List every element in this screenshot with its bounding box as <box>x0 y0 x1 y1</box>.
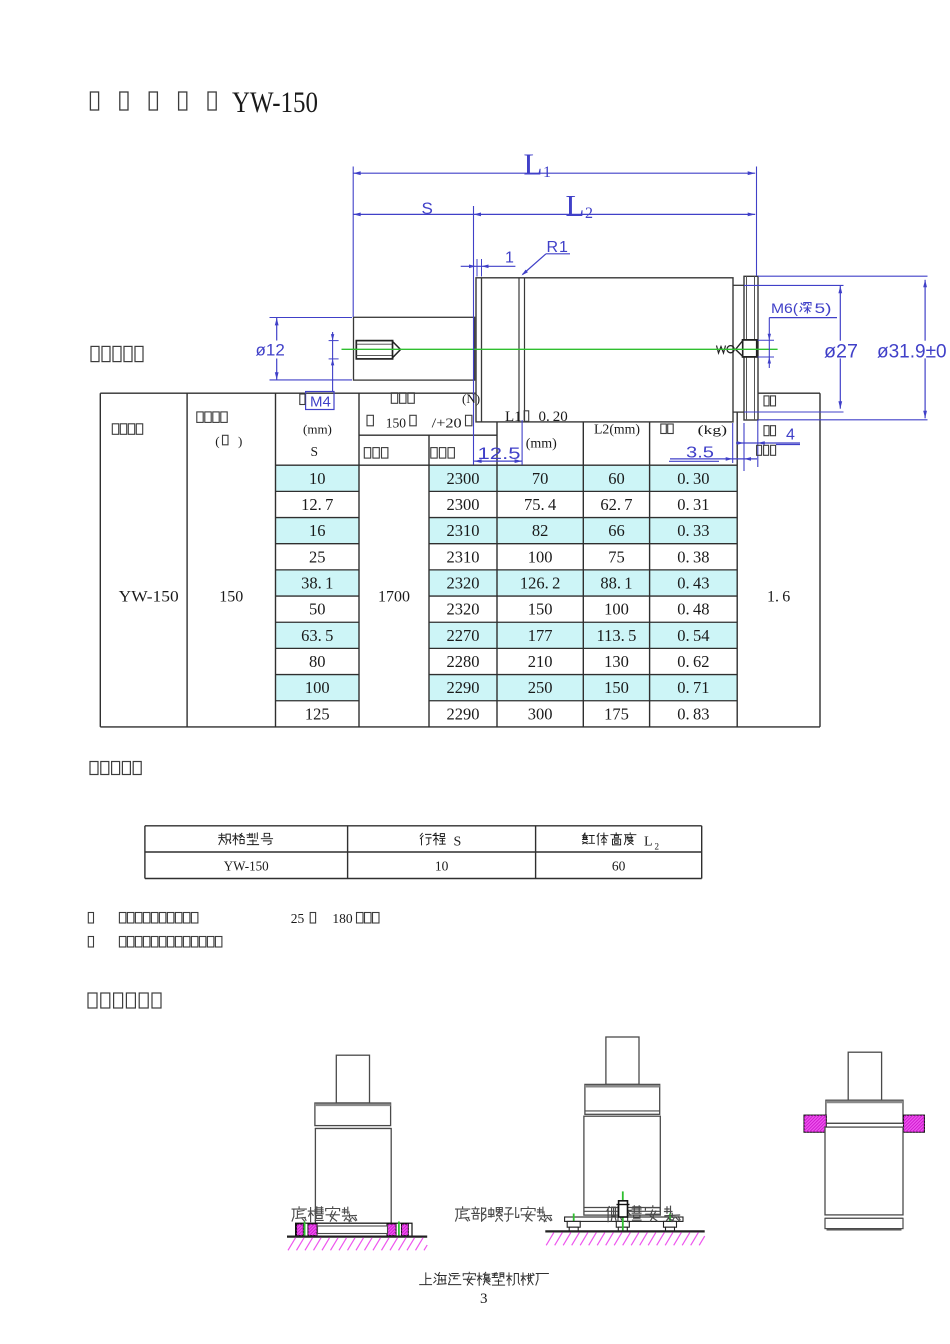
table1 vertical line 2 <box>275 393 277 727</box>
svg-text:25: 25 <box>291 911 305 926</box>
dimension S <box>353 213 473 215</box>
neck white fill <box>733 285 744 412</box>
table1 highlighted cyan cells <box>276 465 360 491</box>
M6 stud in end cap <box>743 340 757 357</box>
svg-text:2300: 2300 <box>447 495 480 514</box>
d3 right clamp <box>904 1115 925 1132</box>
end cap white fill <box>744 276 758 420</box>
svg-text:0. 48: 0. 48 <box>677 600 709 619</box>
dimension ø31.9 <box>758 275 928 277</box>
svg-text:1: 1 <box>543 164 551 181</box>
d2 base plate <box>565 1217 683 1221</box>
piston rod (ø12) <box>354 317 475 380</box>
svg-text:ø12: ø12 <box>256 341 285 360</box>
d2 side green pin <box>573 1214 575 1232</box>
table1 vertical line 1 <box>186 393 188 727</box>
svg-text:0. 54: 0. 54 <box>677 626 709 645</box>
piston rod white fill <box>354 317 475 380</box>
d3 bottom ring line1 <box>825 1217 903 1219</box>
d2 side green pin <box>669 1214 671 1232</box>
svg-text:126. 2: 126. 2 <box>520 573 560 592</box>
header col1 boxes <box>112 424 118 435</box>
svg-text:5): 5) <box>815 300 832 316</box>
svg-text:S: S <box>454 835 462 850</box>
d1 base outer <box>296 1223 412 1236</box>
d2 foot upper <box>616 1221 629 1227</box>
dimension M4 (rod stud) <box>329 340 339 342</box>
d2 center green pin <box>622 1191 624 1231</box>
svg-text:100: 100 <box>305 678 330 697</box>
svg-text:10: 10 <box>309 469 326 488</box>
R1 groove right line <box>524 278 526 422</box>
green centerline <box>342 348 778 350</box>
svg-text:2320: 2320 <box>447 573 480 592</box>
d1 cap <box>315 1103 391 1126</box>
d2 foot lower <box>618 1227 627 1231</box>
table1 vertical line 3 <box>358 393 360 727</box>
svg-text:0. 20: 0. 20 <box>539 409 568 425</box>
dimension 12.5 <box>521 420 523 465</box>
M4 label box <box>306 392 334 410</box>
svg-text:YW-150: YW-150 <box>232 86 318 119</box>
svg-text:M6(: M6( <box>771 300 798 316</box>
svg-text:ø27: ø27 <box>824 342 858 363</box>
header col2 boxes line1 <box>197 412 203 423</box>
svg-text:L: L <box>566 188 585 223</box>
d2 cap <box>585 1084 660 1114</box>
svg-text:2320: 2320 <box>447 600 480 619</box>
d1 ground line <box>287 1235 427 1237</box>
end cap inner left line <box>746 276 748 420</box>
table1 vertical line 0 <box>99 393 101 727</box>
svg-text:2310: 2310 <box>447 547 480 566</box>
header col3 box <box>300 394 305 405</box>
dimension L2 <box>474 213 756 215</box>
svg-text:2280: 2280 <box>447 652 480 671</box>
header col9 boxes r3 <box>757 445 762 455</box>
d1 ground hatch <box>288 1238 427 1251</box>
svg-text:2290: 2290 <box>447 704 480 723</box>
dimension 1 (front cap width) <box>461 265 516 267</box>
table1 header bottom line <box>276 464 738 466</box>
svg-text:2: 2 <box>585 205 593 222</box>
table1 vertical line 6 <box>582 393 584 727</box>
svg-text:M4: M4 <box>310 394 331 411</box>
d3 cap thick top edge <box>826 1101 903 1104</box>
svg-text:177: 177 <box>528 626 553 645</box>
svg-text:63. 5: 63. 5 <box>301 626 333 645</box>
svg-text:(: ( <box>215 434 219 449</box>
table1 top border <box>100 392 820 394</box>
svg-text:150: 150 <box>386 416 407 431</box>
weld mark "wo" on centerline <box>717 346 726 354</box>
table1 vertical line 9 <box>819 393 821 727</box>
svg-text:L2(mm): L2(mm) <box>594 422 640 437</box>
svg-text:0. 31: 0. 31 <box>677 495 709 514</box>
svg-text:75: 75 <box>608 547 625 566</box>
svg-text:YW-150: YW-150 <box>119 589 179 606</box>
svg-text:250: 250 <box>528 678 553 697</box>
svg-text:2270: 2270 <box>447 626 480 645</box>
svg-text:(kg): (kg) <box>698 422 728 437</box>
dimension ø27 <box>744 284 844 286</box>
d2 foot upper <box>664 1221 677 1227</box>
svg-text:YW-150: YW-150 <box>224 859 269 874</box>
dimension 3.5 <box>732 423 734 463</box>
header col45 boxes <box>391 393 397 404</box>
d2 ground hatch <box>545 1233 704 1246</box>
svg-text:): ) <box>238 434 242 449</box>
d2 body <box>584 1116 660 1215</box>
svg-text:75. 4: 75. 4 <box>524 495 556 514</box>
svg-text:S: S <box>422 199 433 218</box>
table1 vertical line 5 <box>496 393 498 727</box>
svg-text:(mm): (mm) <box>303 422 332 437</box>
svg-text:12. 7: 12. 7 <box>301 495 333 514</box>
d1 slide plate <box>318 1226 388 1234</box>
note line 2 <box>88 937 93 948</box>
table1 vertical line 8 <box>736 393 738 727</box>
d2 foot lower <box>666 1227 675 1231</box>
svg-text:175: 175 <box>604 704 629 723</box>
header col9 boxes r1 <box>764 396 769 406</box>
d2 foot lower <box>569 1227 578 1231</box>
d3 bottom cap <box>825 1218 903 1228</box>
d2 center bolt body <box>619 1201 628 1217</box>
svg-text:25: 25 <box>309 547 326 566</box>
d1 cap thick top edge <box>315 1104 391 1107</box>
cylinder body <box>476 278 733 422</box>
svg-text:0. 33: 0. 33 <box>677 521 709 540</box>
end cap inner right line <box>754 276 756 420</box>
dimension ø12 <box>270 317 353 319</box>
svg-text:16: 16 <box>309 521 326 540</box>
svg-text:S: S <box>311 444 319 459</box>
header col9 boxes r2 <box>764 426 769 436</box>
d3 left clamp <box>804 1115 826 1132</box>
d2 cap lower line <box>585 1110 660 1112</box>
svg-text:1. 6: 1. 6 <box>767 589 790 606</box>
svg-text:300: 300 <box>528 704 553 723</box>
d3 groove line <box>826 1122 903 1124</box>
svg-text:(N): (N) <box>462 391 480 406</box>
svg-text:50: 50 <box>309 600 326 619</box>
svg-text:38. 1: 38. 1 <box>301 573 333 592</box>
neck top line <box>733 284 744 286</box>
svg-text:3.5: 3.5 <box>686 445 714 462</box>
neck bottom line <box>733 411 744 413</box>
svg-text:0. 71: 0. 71 <box>677 678 709 697</box>
svg-text:2300: 2300 <box>447 469 480 488</box>
d1 left green pin <box>304 1222 306 1237</box>
title: five missing-glyph boxes <box>90 92 98 110</box>
pseudo-glyph 深 <box>800 303 811 314</box>
svg-text:150: 150 <box>604 678 629 697</box>
svg-text:0. 30: 0. 30 <box>677 469 709 488</box>
svg-text:1: 1 <box>505 250 514 267</box>
table1 subheader divider <box>359 434 497 436</box>
svg-text:L: L <box>524 147 543 182</box>
front cap inner line <box>481 278 483 422</box>
d1 right green pin <box>398 1222 400 1237</box>
extension line mid (body front) <box>473 206 475 465</box>
svg-text:0. 62: 0. 62 <box>677 652 709 671</box>
header sub col5 boxes <box>431 448 437 459</box>
d3 rod <box>848 1052 881 1100</box>
svg-text:4: 4 <box>786 427 795 444</box>
header col8 boxes <box>661 424 667 434</box>
table1 bottom border <box>100 726 820 728</box>
d1 right clamp inner <box>387 1224 396 1236</box>
d2 ground line <box>545 1230 704 1232</box>
svg-text:ø31.9±0: ø31.9±0 <box>877 342 947 363</box>
table1 vertical line 4 <box>428 435 430 727</box>
d1 cap/body joint second line <box>315 1128 391 1130</box>
table1 vertical line 7 <box>649 393 651 727</box>
svg-text:(mm): (mm) <box>526 437 557 452</box>
end cap flange <box>744 276 758 420</box>
svg-text:0. 83: 0. 83 <box>677 704 709 723</box>
svg-text:L: L <box>644 835 653 850</box>
svg-text:2310: 2310 <box>447 521 480 540</box>
svg-text:180: 180 <box>332 911 353 926</box>
svg-text:150: 150 <box>219 589 243 606</box>
d1 rod <box>336 1055 369 1103</box>
d2 bottom ring line1 <box>584 1207 660 1209</box>
svg-text:L1: L1 <box>505 409 522 425</box>
svg-text:60: 60 <box>612 859 626 874</box>
svg-text:130: 130 <box>604 652 629 671</box>
svg-text:80: 80 <box>309 652 326 671</box>
svg-text:150: 150 <box>528 600 553 619</box>
d2 bottom ring line2 <box>584 1210 660 1212</box>
extension line left (rod face) <box>352 167 354 318</box>
svg-text:70: 70 <box>532 469 549 488</box>
svg-text:1700: 1700 <box>378 589 410 606</box>
svg-text:66: 66 <box>608 521 625 540</box>
svg-text:60: 60 <box>608 469 625 488</box>
d3 cap <box>826 1100 903 1123</box>
header sub col4 boxes <box>364 448 370 459</box>
svg-text:12.5: 12.5 <box>478 444 521 463</box>
R1 groove left line <box>518 278 520 422</box>
svg-text:3: 3 <box>480 1291 488 1307</box>
svg-text:82: 82 <box>532 521 549 540</box>
section label (dimension drawing): five boxes <box>91 346 99 361</box>
svg-text:210: 210 <box>528 652 553 671</box>
table2 borders <box>145 825 702 827</box>
d1 right clamp outer <box>402 1224 409 1236</box>
d2 foot upper <box>567 1221 580 1227</box>
dimension L1 <box>353 172 755 174</box>
svg-text:125: 125 <box>305 704 330 723</box>
dimension 4 <box>757 420 759 467</box>
svg-text:62. 7: 62. 7 <box>600 495 632 514</box>
d3 body <box>825 1127 903 1215</box>
M4 stud on rod end <box>356 341 392 359</box>
note line 1 <box>88 913 93 924</box>
extension line right (cap face) <box>756 167 758 277</box>
d2 rod <box>606 1037 639 1084</box>
d1 left clamp inner <box>308 1224 317 1236</box>
svg-text:0. 38: 0. 38 <box>677 547 709 566</box>
d1 left clamp outer <box>297 1224 304 1236</box>
svg-text:100: 100 <box>528 547 553 566</box>
d3 bottom line <box>827 1229 902 1231</box>
svg-text:100: 100 <box>604 600 629 619</box>
svg-text:2: 2 <box>655 842 660 852</box>
svg-text:/+20: /+20 <box>432 416 462 431</box>
cylinder body white fill <box>476 278 733 422</box>
svg-text:0. 43: 0. 43 <box>677 573 709 592</box>
svg-text:88. 1: 88. 1 <box>600 573 632 592</box>
d1 body <box>315 1129 391 1224</box>
svg-text:10: 10 <box>435 859 449 874</box>
d2 cap thick top edge <box>585 1085 660 1088</box>
svg-text:113. 5: 113. 5 <box>597 626 637 645</box>
svg-text:2290: 2290 <box>447 678 480 697</box>
